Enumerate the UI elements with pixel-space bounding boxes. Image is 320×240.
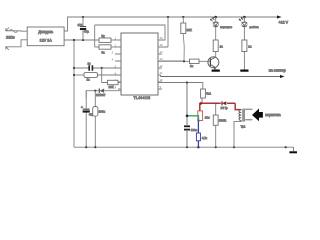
node: dot pin8 branch bbox=[94, 90, 96, 92]
wire: mains top lead bbox=[6, 30, 27, 32]
node: dot pin5 branch bbox=[101, 67, 103, 69]
label: na zatvor (to gate) bbox=[280, 75, 285, 78]
node: dot pin6 ground tie bbox=[73, 74, 75, 76]
svg-text:TL494CN: TL494CN bbox=[134, 96, 151, 100]
resistor R-base 1k bbox=[190, 59, 200, 63]
wire: pin5 branch down to pin7 resistor bbox=[102, 68, 108, 83]
svg-text:13: 13 bbox=[160, 57, 164, 61]
svg-text:12V 1А: 12V 1А bbox=[40, 39, 53, 43]
IC pin stubs left bbox=[115, 40, 121, 89]
resistor R-4k7 (blue) bbox=[196, 133, 200, 141]
wire: emitter to ground bar bbox=[215, 67, 217, 70]
node: dot red/560R tap bbox=[215, 102, 217, 104]
resistor R-560 bbox=[213, 115, 218, 125]
svg-text:1н: 1н bbox=[88, 62, 92, 66]
svg-text:22К: 22К bbox=[187, 28, 192, 32]
wire: +12V rail from supply output bbox=[64, 17, 280, 31]
wire: main ground drop at x74 bbox=[73, 40, 75, 147]
wire: LED1 to R bbox=[215, 27, 217, 40]
svg-text:470: 470 bbox=[77, 23, 82, 27]
node: rail dots right section bbox=[167, 16, 169, 18]
svg-text:на затвор: на затвор bbox=[269, 68, 286, 72]
node: red junction bbox=[199, 102, 202, 105]
AC sine symbol bbox=[9, 30, 18, 33]
wire: 560R branch from red wire bbox=[215, 103, 217, 115]
wire: collector from LED resistor bbox=[215, 52, 217, 57]
node: dot cap bottom bbox=[82, 39, 84, 41]
diode D-1N4007 bbox=[98, 88, 100, 93]
resistor R-22K bbox=[182, 17, 184, 23]
wire: pin10 branch bbox=[158, 83, 203, 90]
node: dot ground drop bbox=[73, 39, 75, 41]
wire: 100k branch down bbox=[94, 91, 96, 148]
wire: to-gate line (pin 11) bbox=[161, 75, 284, 77]
wire: pin13 base line bbox=[158, 60, 210, 62]
resistor R-pin2 bbox=[95, 46, 99, 48]
wire: red output wire bbox=[200, 103, 242, 111]
svg-text:16: 16 bbox=[160, 36, 164, 40]
svg-text:220в: 220в bbox=[6, 35, 15, 40]
svg-text:100п: 100п bbox=[191, 128, 198, 132]
wire: pin15 to rail bbox=[167, 17, 169, 47]
IC U1 body bbox=[121, 33, 158, 95]
IC pin stubs right bbox=[158, 40, 184, 89]
ground rail (bottom bus) bbox=[74, 147, 294, 151]
capacitor C-pin5 bbox=[74, 67, 121, 69]
svg-text:перегрев: перегрев bbox=[220, 25, 232, 29]
capacitor C-electrolytic (bottom) bbox=[83, 108, 90, 110]
wire: feedback vertical x187 bbox=[186, 83, 188, 126]
node: dot pin5 ground tie bbox=[73, 67, 75, 69]
ground bar under LED2 resistor bbox=[240, 69, 248, 71]
svg-text:4,7к: 4,7к bbox=[202, 136, 208, 140]
svg-text:5к1: 5к1 bbox=[206, 92, 211, 96]
transformer T1 primary winding bbox=[239, 110, 241, 121]
wire: supply bottom output / ground feed bbox=[64, 39, 99, 41]
power supply box U-standby (Дежурка 12V 1А) bbox=[27, 27, 64, 46]
resistor R-pin1 bbox=[99, 38, 111, 42]
resistor R-LED1 bbox=[213, 40, 218, 52]
transformer core bbox=[243, 109, 244, 122]
capacitor C-100p bbox=[184, 125, 190, 127]
svg-text:11: 11 bbox=[160, 71, 163, 75]
wire: LED2 to R bbox=[243, 27, 245, 40]
svg-text:10к: 10к bbox=[205, 116, 210, 120]
wire: mains bottom lead bbox=[6, 40, 27, 47]
node: dot pin10 branch bbox=[186, 81, 188, 83]
capacitor C-filter (electrolytic at x83) bbox=[82, 17, 84, 40]
wire: feed to IC pin16 (upper loop) bbox=[95, 25, 165, 40]
wire: winding bottom to ground rail bbox=[234, 120, 241, 147]
svg-text:+: + bbox=[81, 106, 83, 110]
resistor R-5k1 bbox=[201, 89, 206, 98]
svg-text:работа: работа bbox=[250, 25, 259, 29]
LED LED2 (power on) bbox=[243, 17, 245, 22]
pin numbers left bbox=[112, 36, 117, 89]
AC mains input arrows bbox=[6, 28, 10, 51]
transformer secondary stubs bbox=[245, 109, 252, 120]
svg-text:47µ: 47µ bbox=[84, 30, 89, 34]
svg-text:первичка: первичка bbox=[265, 113, 280, 117]
svg-text:+12 V: +12 V bbox=[279, 21, 289, 25]
resistor R-LED2 bbox=[242, 40, 247, 52]
wire: pin8 diode branch bbox=[86, 91, 121, 98]
arrow: primary pointer (big black arrow) bbox=[252, 109, 263, 122]
diode D-HF (on red wire) bbox=[221, 101, 223, 105]
+12V rail arrowhead bbox=[277, 15, 282, 18]
node: dots on ground rail bbox=[85, 146, 87, 148]
wire: electrolytic branch down bbox=[85, 91, 87, 148]
resistor R-100k bbox=[93, 107, 98, 117]
svg-text:10: 10 bbox=[160, 78, 164, 82]
pin numbers right bbox=[160, 36, 164, 89]
resistor R-pin6 bbox=[74, 74, 84, 76]
wire: node to pins 1/2 resistors tie bbox=[94, 25, 96, 47]
ground symbol bottom right bbox=[289, 151, 297, 153]
node: dot rail-cap bbox=[82, 16, 84, 18]
node: green junction dot bbox=[186, 115, 189, 118]
resistor R-20K (pin7) bbox=[108, 80, 119, 84]
svg-text:14: 14 bbox=[160, 50, 164, 54]
svg-text:Тр1: Тр1 bbox=[241, 125, 246, 129]
svg-text:1N4007: 1N4007 bbox=[96, 93, 106, 97]
svg-text:Дежурка: Дежурка bbox=[38, 30, 54, 34]
svg-text:15: 15 bbox=[160, 43, 164, 47]
wire: R-LED2 to ground bar bbox=[243, 52, 245, 70]
transistor Q1 bbox=[208, 57, 219, 68]
wire: green feedback wire bbox=[187, 116, 200, 121]
LED LED1 (overheat) bbox=[215, 17, 217, 22]
svg-text:560R: 560R bbox=[219, 119, 227, 123]
wire: blue divider lower branch bbox=[197, 121, 199, 134]
svg-text:100к: 100к bbox=[99, 110, 106, 114]
ground bar under Q1 bbox=[212, 69, 220, 71]
svg-text:20К: 20К bbox=[109, 85, 114, 89]
wire: R-5k1 bottom to red node bbox=[201, 98, 203, 103]
resistor R-10k (red bordered) bbox=[198, 111, 203, 121]
svg-text:ВЧ Тр: ВЧ Тр bbox=[221, 106, 229, 110]
node: dot base/22K junction bbox=[183, 60, 185, 62]
svg-text:12: 12 bbox=[160, 64, 164, 68]
